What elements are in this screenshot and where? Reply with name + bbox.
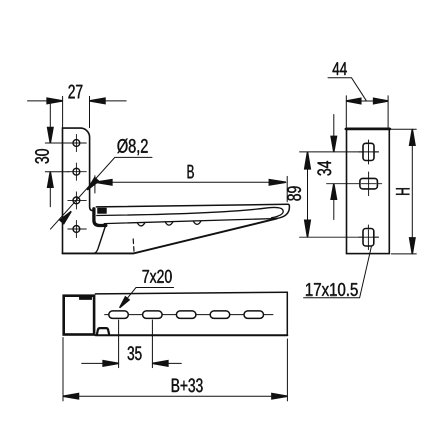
dimension 30: extension lines (45, 143, 69, 172)
hole 2 in wall plate with centerlines (73, 168, 80, 175)
dimension 44: dimension line (346, 100, 388, 102)
dimension 30: text (rotated) (35, 149, 49, 163)
dimension H: text (rotated) (396, 188, 409, 195)
top view: slot 3 (7x20) (176, 311, 196, 319)
dimension 44: arrows (346, 98, 361, 103)
diameter callout 8,2: leader line (51, 157, 153, 229)
top view: arm right end (286, 292, 288, 335)
dimension B+33: arrows (63, 394, 79, 399)
dimension H: dimension line (411, 129, 413, 254)
top view: plate section (thick rectangle) (64, 296, 94, 335)
side view: weld block at arm root (98, 208, 107, 214)
top view: slot 5 (7x20) (244, 311, 264, 319)
dimension H: arrows (410, 129, 415, 145)
dimension 27: text (69, 85, 83, 99)
dimension 30: dimension line stubs (49, 99, 51, 207)
top view: slot centerline (105, 314, 273, 316)
dimension 27: dimension line stubs (28, 100, 127, 102)
dimension B: text (188, 165, 194, 178)
side view: thick bent hook at plate/arm joint (94, 209, 106, 226)
slot callout 17x10.5: text (306, 283, 358, 296)
dimension 35: extension lines (119, 320, 153, 368)
dimension 30: arrows (48, 128, 53, 144)
side view: bottom edge of plate and gusset web (63, 219, 277, 254)
side view: flange line with slot scallops (104, 219, 277, 224)
rear view: bottom slot (363, 229, 374, 247)
dimension 27: extension lines (63, 96, 90, 127)
dimension B+33: text (172, 378, 203, 392)
side view: wall plate outline (63, 128, 93, 253)
diameter callout: arrows at hole edge (87, 178, 98, 190)
dimension H: extension lines (391, 129, 416, 254)
side view: slot scallops on flange line (137, 221, 201, 226)
rear view: top slot centerlines (300, 140, 379, 164)
dimension 34: dimension line stubs (333, 115, 335, 220)
dimension B: dimension line (95, 181, 285, 183)
dimension 35: arrows (103, 361, 119, 366)
rear view: middle slot centerlines (327, 172, 382, 196)
rear view: top slot 17x10.5 (363, 143, 374, 160)
slot callout 7x20: leader (120, 288, 174, 308)
rear view: thick top edge (346, 128, 390, 130)
rear view: bottom slot centerlines (300, 225, 379, 250)
rear view: middle slot (horizontal) (360, 178, 378, 189)
dimension 89: dimension line (307, 152, 309, 237)
dimension 35: dimension line stubs (82, 362, 182, 364)
top view: slot 4 (7x20) (210, 311, 230, 319)
side view: arm profile lower edge (97, 207, 283, 217)
diameter callout: text (117, 139, 147, 156)
slot callout 7x20: text (143, 270, 172, 283)
dimension B+33: extension lines (63, 338, 287, 401)
hole 3 in wall plate with centerlines (73, 197, 80, 204)
dimension 44: leader and text (328, 78, 366, 101)
dimension 89: arrows (305, 152, 311, 169)
side view: gusset web left edge (95, 225, 106, 253)
dimension 34: arrows (331, 136, 336, 152)
top view: gusset bump (97, 328, 109, 334)
dimension 89: text (rotated) (287, 186, 301, 200)
dimension 34: text (rotated) (317, 161, 331, 176)
dimension B: arrows (95, 180, 112, 185)
top view: arm top edge (95, 292, 287, 294)
rear view: mounting plate outline (347, 128, 390, 253)
top view: slot 2 (7x20) (143, 311, 163, 319)
top view: slot 1 (7x20) (109, 311, 129, 319)
dimension 35: text (128, 346, 142, 360)
top view: arm bottom edge (95, 334, 287, 336)
hole 1 in wall plate with centerlines (73, 140, 80, 147)
dimension 27: arrows (47, 98, 63, 103)
hole 4 in wall plate with centerlines (73, 226, 80, 233)
dimension 44: extension lines (346, 96, 388, 128)
dimension B: extension lines (95, 176, 287, 202)
top view: black tab at plate section (79, 295, 91, 300)
side view: arm top edge (96, 204, 288, 207)
side view: dashed bend line on web (132, 239, 135, 253)
side view: arm tip rounded end (277, 204, 289, 218)
dimension B+33: dimension line (63, 395, 287, 397)
slot callout 17x10.5: leader (304, 247, 372, 298)
